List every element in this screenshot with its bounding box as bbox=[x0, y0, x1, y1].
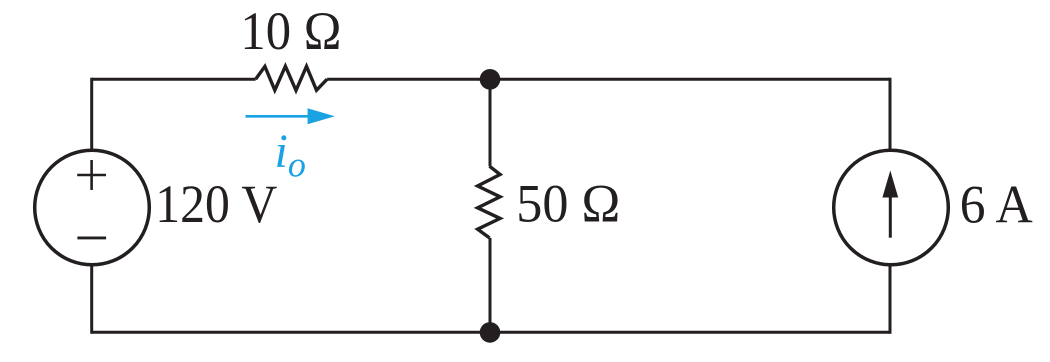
svg-text:io: io bbox=[275, 125, 306, 185]
svg-text:10 Ω: 10 Ω bbox=[240, 1, 341, 61]
svg-text:6 A: 6 A bbox=[960, 175, 1033, 235]
svg-text:120 V: 120 V bbox=[155, 174, 277, 234]
svg-text:50 Ω: 50 Ω bbox=[516, 174, 620, 234]
